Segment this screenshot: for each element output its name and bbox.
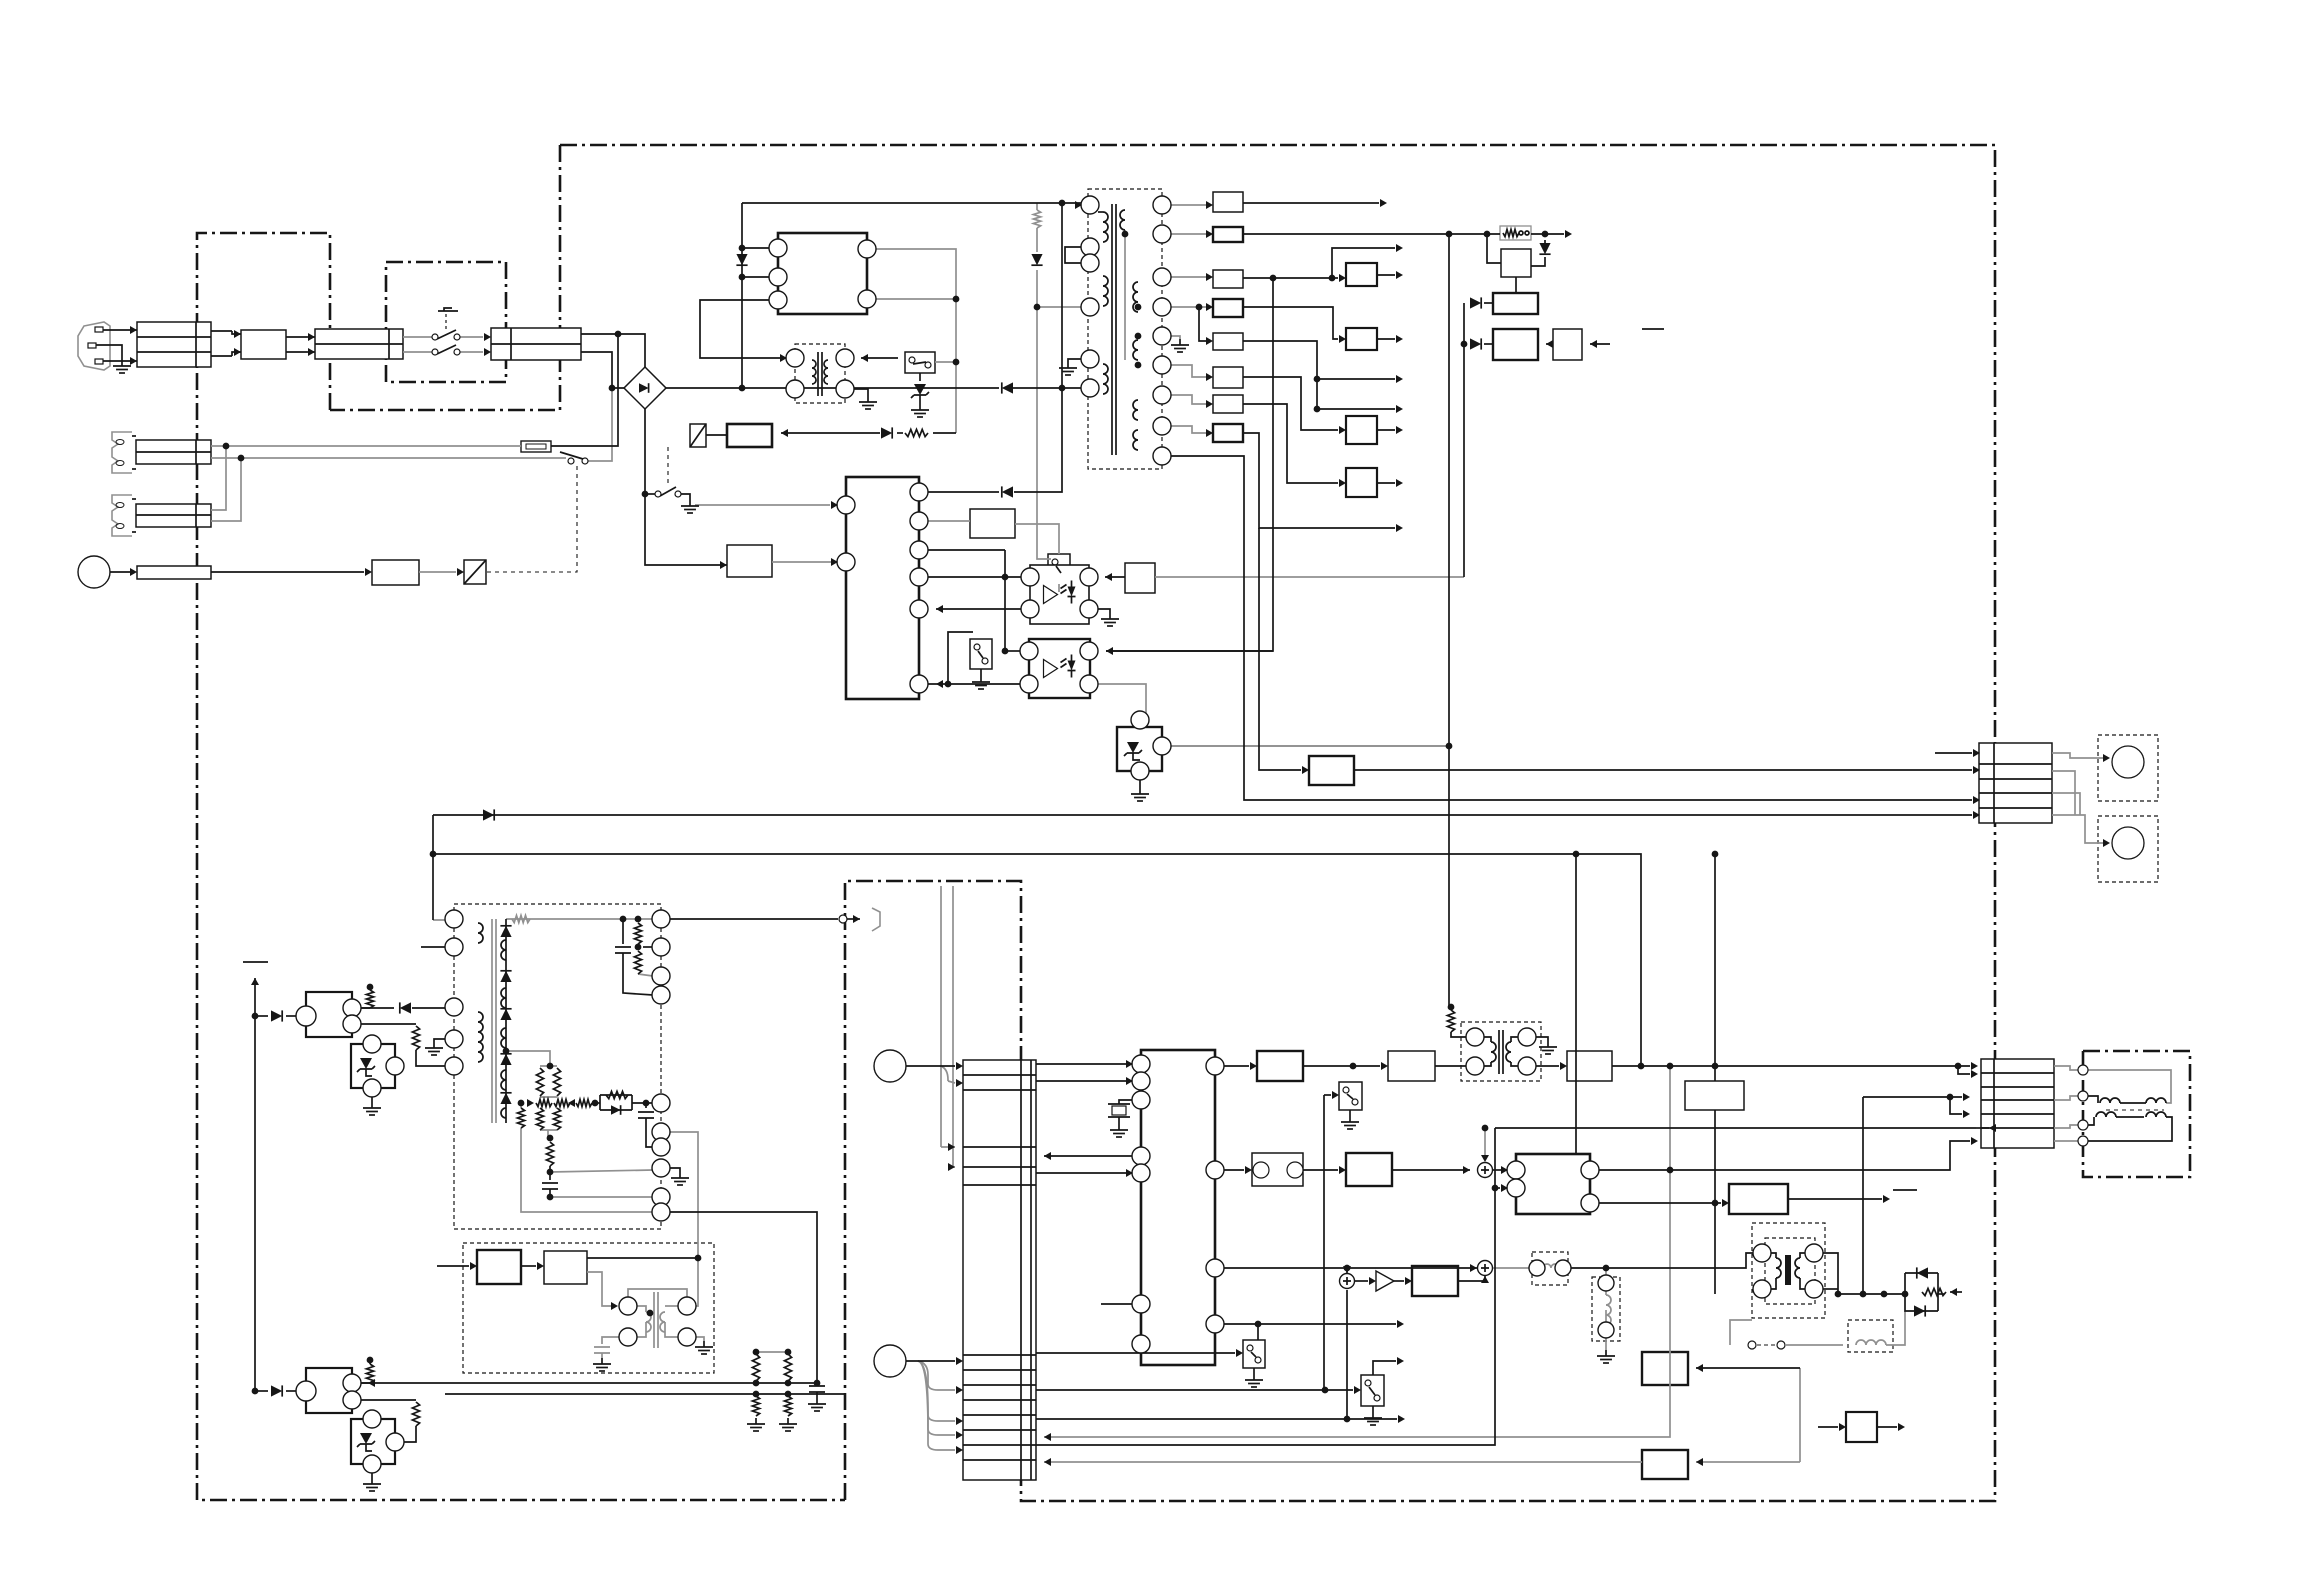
diode: [500, 1009, 511, 1020]
filter block: [1553, 329, 1582, 360]
functional block: [136, 504, 211, 527]
diode: [500, 1093, 511, 1104]
diode: [1470, 297, 1481, 308]
power switch block: [137, 566, 211, 579]
audio amp block U1: [1257, 1051, 1303, 1081]
audio input jack J802: [874, 1345, 906, 1377]
switch: [1361, 1375, 1384, 1406]
line filter block: [241, 330, 286, 359]
rectifier/filter block: [1213, 299, 1243, 317]
rectifier/filter block: [1213, 395, 1243, 413]
tone block V2: [1346, 1153, 1392, 1186]
fusible resistor R601: [1500, 226, 1531, 240]
rectifier/filter block: [1213, 192, 1243, 212]
photocoupler: [1030, 565, 1089, 624]
wire junction dots: [223, 200, 1962, 1423]
audio power amp IC202: [1516, 1154, 1590, 1214]
mute transistor block: [1685, 1081, 1744, 1110]
diode: [500, 971, 511, 982]
diode: [1002, 486, 1013, 497]
output filter block U3: [1567, 1051, 1612, 1081]
switch: [1339, 1082, 1362, 1110]
sensor block: [1846, 1412, 1877, 1442]
regulator block 2: [1493, 293, 1538, 314]
diode: [271, 1385, 282, 1396]
oscillator block 1: [477, 1250, 521, 1284]
oscillator block 2: [544, 1251, 587, 1284]
transformer T801: [454, 904, 661, 1229]
heavy bus wires: [0, 0, 1, 1]
start-up / VCC block: [727, 545, 772, 577]
main switching transformer T601: [1088, 189, 1162, 469]
relay RY601: [464, 560, 486, 584]
rectifier/filter block: [1213, 424, 1243, 442]
line filter block 2: [315, 329, 403, 359]
AC plug P1: [78, 322, 110, 370]
switching regulator IC601: [778, 233, 867, 314]
signal-flow arrowheads: [130, 199, 2110, 1466]
AC inlet / line filter block: [137, 322, 211, 367]
switch: [905, 352, 935, 373]
switch: [1048, 554, 1070, 584]
drive transformer T602: [795, 344, 845, 403]
summing junction: [1478, 1261, 1493, 1276]
crystal X201: [1112, 1106, 1126, 1115]
diode: [1031, 254, 1042, 265]
connector CN801 board-to-board: [963, 1060, 1036, 1480]
summing junction: [1478, 1163, 1493, 1178]
diode: [1470, 338, 1481, 349]
feedback block: [1125, 563, 1155, 593]
zener diode: [360, 1433, 372, 1444]
degauss coil L601: [2106, 1109, 2164, 1111]
inductor L202: [1592, 1277, 1620, 1341]
diode: [611, 1105, 621, 1115]
volume block V1: [1252, 1153, 1303, 1186]
zener diode: [360, 1058, 372, 1069]
board outlines (dash-dot chassis borders): [197, 145, 2190, 1501]
shunt regulator IC603: [1117, 727, 1162, 771]
protect block: [970, 509, 1015, 538]
diode: [483, 809, 494, 820]
wire harness (gray signal wires): [211, 203, 2171, 1462]
diode: [500, 926, 511, 937]
diode: [400, 1002, 411, 1013]
regulator Q601: [1346, 263, 1377, 286]
standby control block: [372, 560, 419, 585]
regulator IC801: [306, 992, 352, 1037]
fuse F601: [521, 441, 551, 452]
audio filter block U2: [1388, 1051, 1435, 1081]
diode: [1002, 382, 1013, 393]
error amp block: [727, 424, 772, 447]
bridge rectifier D601: [624, 367, 666, 409]
rectifier/filter block: [1213, 367, 1243, 388]
regulator block 3: [1493, 329, 1538, 360]
audio processor IC201: [1141, 1050, 1215, 1365]
regulator IC803: [306, 1368, 352, 1413]
switch: [970, 639, 992, 669]
speaker SP602: [2098, 816, 2158, 882]
protect block Y1: [1642, 1352, 1688, 1385]
diode: [881, 427, 892, 438]
regulator block: [1501, 249, 1531, 277]
speaker SP601: [2098, 735, 2158, 801]
diode: [1917, 1267, 1928, 1278]
inductor L201: [1532, 1252, 1568, 1285]
audio input jack J801: [874, 1050, 906, 1082]
zener diode: [1127, 742, 1139, 753]
rectifier/filter block: [1213, 227, 1243, 242]
shunt regulator IC802: [351, 1044, 395, 1088]
wire harness (black wires, resistors, grounds, coils): [96, 203, 2172, 1491]
open contact circles: [432, 334, 438, 340]
protect block Y2: [1642, 1450, 1688, 1479]
connector CN202 degauss/speaker: [1981, 1059, 2054, 1148]
connector CN601 speaker out: [1979, 743, 2052, 823]
diode: [736, 254, 747, 265]
bass boost block: [1412, 1266, 1458, 1296]
summing junction: [1340, 1274, 1355, 1289]
relay RY602: [690, 424, 706, 447]
AC connector block: [491, 328, 581, 360]
shunt regulator IC804: [351, 1419, 395, 1464]
diode: [1914, 1305, 1925, 1316]
diode: [639, 383, 649, 393]
switch: [1243, 1340, 1265, 1368]
regulator Q604: [1346, 468, 1377, 497]
rectifier/filter block: [1213, 270, 1243, 288]
line transformer T201: [1461, 1022, 1541, 1081]
photocoupler: [1029, 639, 1090, 698]
zener diode: [914, 384, 926, 395]
power button: [78, 556, 110, 588]
mute control block: [1309, 756, 1354, 785]
rectifier/filter block: [1213, 333, 1243, 350]
diode: [500, 1054, 511, 1065]
regulator Q603: [1346, 416, 1377, 444]
oscillator module X801: [463, 1243, 714, 1373]
power control IC602: [846, 477, 919, 699]
diode: [271, 1010, 282, 1021]
regulator Q602: [1346, 328, 1377, 350]
headphone amp block: [1729, 1184, 1788, 1214]
component pin circles: [769, 239, 787, 257]
output transformer T202: [1752, 1223, 1825, 1318]
functional block: [136, 440, 211, 464]
diode: [1539, 243, 1550, 254]
